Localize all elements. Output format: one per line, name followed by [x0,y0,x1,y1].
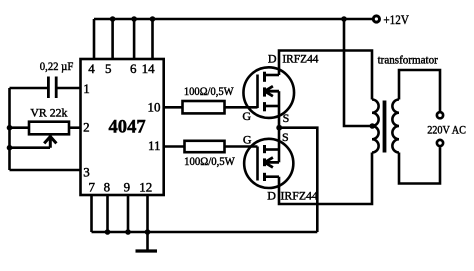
wire VR left lead [10,126,30,129]
transistor Q2 IRFZ44 body circle [244,139,293,188]
svg-text:12: 12 [139,179,152,194]
transformer T1 secondary winding [392,100,399,153]
wire rail to pin 3 [10,169,81,172]
ground [146,232,149,250]
terminal 220V top [437,112,443,118]
transistor Q2 gate bar [256,147,259,181]
svg-text:IRFZ44: IRFZ44 [281,189,318,203]
svg-text:9: 9 [124,179,131,194]
resistor R1 100R 0,5W body [183,101,225,113]
svg-text:transformator: transformator [378,55,438,67]
IC U1 4047 body [81,59,164,195]
wire capacitor left lead [10,87,48,90]
wire pin 10 to R1 [164,106,183,109]
junction pin 8 bus [105,229,111,235]
wire wiper to rail [10,146,51,149]
resistor R2 100R 0,5W body [185,141,225,152]
svg-text:4: 4 [88,61,95,76]
wire capacitor to pin 1 [58,87,81,90]
terminal 220V bottom [437,140,443,146]
transistor Q1 source stub [265,105,280,108]
svg-text:G: G [243,133,252,147]
wire pin 9 down [127,195,130,232]
transistor Q2 source stub [265,148,280,151]
wire pin 6 to bus [133,19,136,59]
transistor Q2 drain stub [265,175,280,178]
wire Q2 source lead to node S [278,128,281,163]
wire left rail [8,88,11,170]
wire pin 4 to bus [93,19,96,59]
wire pin 8 down [106,195,109,232]
wire pin 7 down [90,195,93,232]
svg-text:220V AC: 220V AC [427,125,466,137]
junction pin 12 bus [145,229,151,235]
junction center tap primary [370,123,376,129]
transistor Q1 body stub arrow [265,86,279,96]
wire pin 5 to bus [111,19,114,59]
wire Q1 drain lead up [279,51,372,100]
transistor Q1 IRFZ44 body circle [243,67,294,118]
wire center tap from bus [344,19,372,126]
svg-text:0,22 µF: 0,22 µF [40,61,74,73]
junction rail pin2 row [7,125,13,131]
svg-text:3: 3 [83,165,90,180]
wire pin 14 to bus [151,19,154,59]
svg-text:7: 7 [89,179,96,194]
junction pin 14 bus [150,16,156,22]
potentiometer VR1 22k body [29,122,69,135]
wire Q2 drain lead down [279,153,372,205]
junction pin 6 bus [131,16,137,22]
transformer T1 core [383,101,387,153]
svg-text:S: S [283,111,290,125]
svg-text:2: 2 [83,120,90,135]
svg-text:14: 14 [142,61,156,76]
wire pin 11 to R2 [164,145,184,148]
transformer T1 primary winding [372,100,379,153]
junction pin 9 bus [125,229,131,235]
terminal +12V [373,16,379,22]
transistor Q1 gate bar [256,75,259,109]
svg-text:G: G [242,109,251,123]
capacitor C1 0,22uF plates [47,77,50,99]
wire VR to pin 2 [69,126,81,129]
wire secondary bottom to terminal [399,147,440,183]
wire secondary top to terminal [399,70,440,111]
svg-text:S: S [282,130,289,144]
wire R2 to gate Q2 [225,145,258,148]
transistor Q2 body stub arrow [265,157,279,167]
wire +12V top supply bus [94,18,372,21]
transistor Q1 drain stub [265,74,280,77]
wire pin 12 down [146,195,149,232]
svg-text:D: D [267,189,276,203]
potentiometer wiper arrow [44,135,56,148]
svg-text:10: 10 [148,100,161,115]
wire Q1 source lead to node S [278,91,281,128]
svg-text:IRFZ44: IRFZ44 [282,51,318,65]
wire R1 to gate Q1 [225,106,258,109]
svg-text:4047: 4047 [109,117,147,138]
svg-text:100Ω/0,5W: 100Ω/0,5W [184,156,235,168]
transistor Q1 channel segments [263,72,266,82]
svg-text:D: D [268,51,277,65]
svg-text:+12V: +12V [383,12,409,27]
transistor Q2 channel segments [263,145,266,153]
node S junction [276,125,282,131]
svg-text:11: 11 [148,138,161,153]
svg-text:1: 1 [83,81,90,96]
svg-text:VR 22k: VR 22k [30,108,67,120]
wire sources to ground bus [279,128,317,232]
junction rail wiper row [7,145,13,151]
svg-text:6: 6 [130,61,137,76]
junction center tap bus [341,16,347,22]
junction pin 5 bus [110,16,116,22]
svg-text:8: 8 [104,179,111,194]
wire ground bus [92,231,318,234]
svg-text:100Ω/0,5W: 100Ω/0,5W [184,86,234,98]
svg-text:5: 5 [105,61,112,76]
